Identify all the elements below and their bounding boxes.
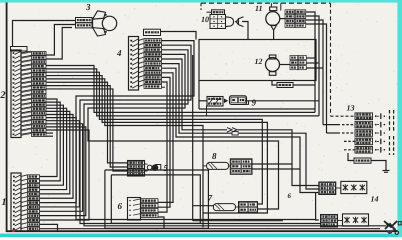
- svg-text:14: 14: [371, 195, 379, 204]
- svg-text:9: 9: [252, 98, 257, 108]
- svg-text:6: 6: [288, 192, 292, 200]
- svg-text:12: 12: [255, 57, 263, 66]
- svg-text:8: 8: [212, 151, 217, 161]
- svg-text:4: 4: [116, 48, 122, 58]
- svg-text:1: 1: [2, 197, 7, 208]
- svg-text:5: 5: [164, 163, 169, 173]
- svg-text:6: 6: [118, 201, 123, 211]
- svg-text:10: 10: [201, 15, 209, 24]
- svg-text:2: 2: [0, 90, 6, 101]
- svg-text:7: 7: [208, 193, 213, 203]
- svg-text:3: 3: [85, 2, 91, 12]
- svg-text:11: 11: [255, 4, 263, 13]
- svg-text:13: 13: [347, 104, 355, 113]
